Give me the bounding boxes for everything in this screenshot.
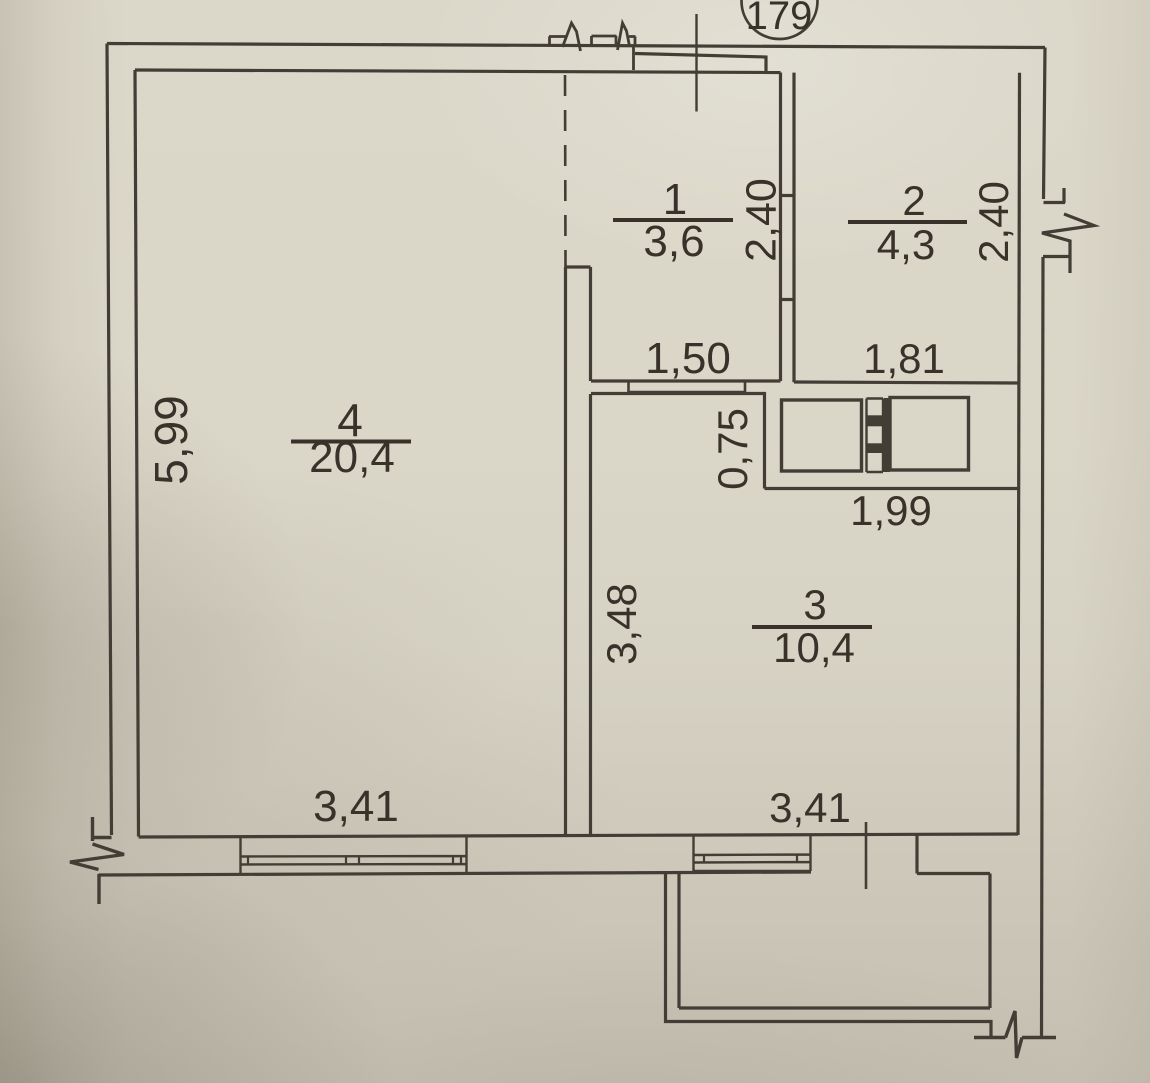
wall room4 right face: [564, 267, 567, 836]
svg-text:3,41: 3,41: [769, 784, 851, 831]
door threshold room1: [629, 381, 746, 392]
partition dashed: [564, 75, 567, 267]
wall tick upper: [781, 194, 795, 197]
closet box left: [782, 400, 862, 471]
balcony outer outline: [666, 874, 992, 1038]
closet box right: [890, 398, 969, 471]
break symbol top: [549, 23, 636, 70]
svg-text:1,99: 1,99: [850, 487, 932, 534]
wall room1-room2 left face: [779, 73, 782, 382]
wall top outer: [107, 44, 1045, 48]
wall room1 bottom: [591, 379, 781, 382]
balcony door jamb: [915, 835, 918, 874]
svg-text:3,6: 3,6: [643, 217, 704, 266]
svg-text:3: 3: [803, 581, 826, 628]
window room3: [694, 835, 811, 871]
wall room1-room2 right face: [792, 73, 795, 383]
wall top inner: [135, 70, 781, 73]
underline room 2: [848, 220, 967, 224]
window room4 mullions: [248, 856, 461, 865]
window room3 mullions: [704, 855, 797, 863]
balcony inner outline: [679, 874, 990, 1009]
svg-text:10,4: 10,4: [773, 624, 855, 671]
break symbol right: [1042, 188, 1094, 273]
wall left outer: [107, 44, 112, 836]
underline room 1: [613, 218, 733, 222]
break symbol bottom-right: [974, 1011, 1056, 1058]
wall closet row bottom: [765, 487, 1019, 490]
wall room3 left face: [589, 394, 592, 836]
axis tick top: [695, 14, 697, 112]
wall tick lower: [781, 298, 795, 301]
wall bottom outer: [99, 872, 812, 875]
svg-text:1,81: 1,81: [863, 335, 945, 382]
vent shaft outline: [867, 399, 884, 473]
wall entrance niche: [635, 54, 766, 73]
balcony top edge: [917, 872, 990, 875]
vent shaft bar lower: [867, 443, 884, 453]
svg-text:2,40: 2,40: [970, 181, 1017, 263]
underline room 3: [752, 625, 872, 629]
svg-text:179: 179: [746, 0, 813, 38]
wall right outer lower: [1042, 257, 1044, 1038]
window room4: [241, 837, 467, 875]
svg-text:0,75: 0,75: [709, 408, 756, 490]
svg-text:2,40: 2,40: [738, 178, 786, 262]
svg-text:4,3: 4,3: [877, 221, 935, 268]
wall jog room4: [566, 265, 591, 268]
wall right inner: [1018, 73, 1020, 835]
axis tick bottom: [865, 822, 868, 889]
wall bottom inner: [139, 834, 1019, 837]
wall hall nook: [591, 394, 765, 489]
vent shaft thick edge: [884, 398, 890, 472]
underline room 4: [291, 440, 411, 444]
wall room1 left face: [589, 267, 592, 381]
apartment number circle: [742, 0, 818, 39]
svg-text:3,48: 3,48: [598, 583, 645, 665]
wall room2 bottom: [794, 382, 1018, 383]
svg-text:2: 2: [902, 177, 925, 224]
vent shaft bar upper: [867, 415, 884, 426]
wall right outer upper: [1044, 48, 1046, 200]
svg-text:1,50: 1,50: [645, 334, 731, 383]
svg-text:5,99: 5,99: [145, 395, 197, 485]
svg-text:3,41: 3,41: [313, 782, 399, 831]
break symbol bottom-left: [70, 817, 124, 904]
svg-text:20,4: 20,4: [309, 433, 395, 482]
wall left inner: [135, 70, 139, 837]
